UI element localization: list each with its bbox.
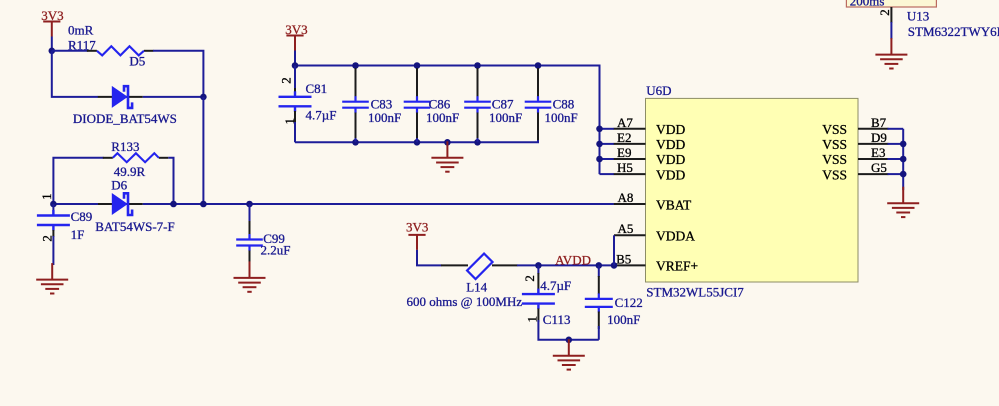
node bottom bus C86 bbox=[414, 139, 421, 146]
svg-text:STM6322TWY6F: STM6322TWY6F bbox=[908, 24, 999, 39]
wire U13 pin to ground bbox=[890, 22, 892, 39]
capacitor C81 riser top bbox=[294, 66, 296, 91]
svg-text:C122: C122 bbox=[615, 295, 643, 310]
wire main rail from C89 junction to D6 bbox=[53, 203, 98, 205]
svg-text:VSS: VSS bbox=[822, 122, 847, 137]
pin B5 VREF+ bbox=[614, 264, 646, 266]
wire A5 riser bbox=[613, 235, 615, 265]
svg-text:2.2uF: 2.2uF bbox=[261, 243, 291, 258]
pin A5 VDDA bbox=[614, 234, 646, 236]
pin C88 top bbox=[537, 68, 539, 97]
node top bus C88 bbox=[535, 62, 542, 69]
svg-text:A8: A8 bbox=[618, 190, 634, 205]
svg-text:1: 1 bbox=[525, 316, 540, 323]
inductor L14 ferrite bead bbox=[467, 254, 492, 279]
power 3V3 symbol (top-left) bbox=[43, 22, 60, 37]
node C122 tap bbox=[596, 262, 603, 269]
svg-text:E9: E9 bbox=[617, 145, 631, 160]
node bottom bus ground tap bbox=[444, 139, 451, 146]
ground C89 bbox=[36, 263, 68, 293]
pin C122 bottom bbox=[598, 312, 600, 330]
node top bus C83 bbox=[352, 62, 359, 69]
svg-text:H5: H5 bbox=[617, 160, 633, 175]
svg-text:DIODE_BAT54WS: DIODE_BAT54WS bbox=[73, 111, 177, 126]
svg-text:D5: D5 bbox=[129, 54, 145, 69]
wire 3V3 stem to R117 junction bbox=[51, 37, 53, 51]
pin C81 bottom bbox=[294, 111, 296, 123]
pin B7 VSS bbox=[858, 128, 889, 130]
pin C99 bottom bbox=[249, 251, 251, 264]
pin C87 bottom bbox=[477, 113, 479, 141]
wire C87 to bottom bus bbox=[477, 138, 479, 142]
svg-text:100nF: 100nF bbox=[368, 110, 401, 125]
pin 2 of U13 bbox=[890, 7, 892, 23]
svg-text:0mR: 0mR bbox=[68, 22, 94, 37]
wire junction to R117 bbox=[52, 50, 88, 52]
svg-text:U13: U13 bbox=[907, 8, 929, 23]
svg-text:VREF+: VREF+ bbox=[656, 259, 698, 274]
capacitor C83 bbox=[342, 96, 369, 113]
node junction C89/R133/rail bbox=[50, 201, 57, 208]
diode D5 bbox=[98, 86, 143, 108]
svg-text:VDD: VDD bbox=[656, 137, 685, 152]
node top bus C86 bbox=[414, 62, 421, 69]
op-amp U6D body bbox=[646, 98, 859, 282]
wire right vertical down to main rail bbox=[202, 97, 204, 204]
svg-text:200ms: 200ms bbox=[850, 0, 885, 8]
wire C122 to bottom rail bbox=[598, 326, 600, 340]
ground cap bank bbox=[431, 141, 463, 171]
pin C89 top bbox=[52, 210, 54, 215]
pin C81 top bbox=[294, 88, 296, 96]
wire C122 riser bbox=[598, 265, 600, 277]
svg-text:2: 2 bbox=[39, 235, 54, 242]
pin C122 top bbox=[598, 276, 600, 294]
pin E3 VSS bbox=[858, 158, 889, 160]
svg-text:4.7µF: 4.7µF bbox=[306, 108, 337, 123]
svg-text:C113: C113 bbox=[543, 312, 571, 327]
resistor R117 bbox=[87, 46, 153, 55]
svg-text:VDD: VDD bbox=[656, 167, 685, 182]
node junction R133 right on rail bbox=[170, 201, 177, 208]
node bottom bus C83 bbox=[352, 139, 359, 146]
svg-text:600 ohms @ 100MHz: 600 ohms @ 100MHz bbox=[407, 294, 523, 309]
pin A7 bbox=[614, 128, 646, 130]
capacitor C122 bbox=[585, 293, 613, 312]
capacitor C86 bbox=[404, 96, 431, 113]
svg-text:VSS: VSS bbox=[822, 167, 847, 182]
wire 3V3 stem to top bus bbox=[294, 51, 296, 66]
pin G5 VSS bbox=[858, 173, 889, 175]
node VSS E3 bbox=[900, 156, 907, 163]
pin E2 bbox=[614, 143, 646, 145]
wire VSS stub G5 bbox=[888, 173, 904, 175]
svg-text:AVDD: AVDD bbox=[555, 252, 591, 267]
svg-text:3V3: 3V3 bbox=[406, 220, 428, 235]
svg-text:C81: C81 bbox=[306, 81, 328, 96]
wire stub bus to pin H5 bbox=[600, 173, 615, 175]
power 3V3 symbol (AVDD) bbox=[408, 235, 425, 250]
svg-text:B7: B7 bbox=[871, 115, 887, 130]
svg-text:2: 2 bbox=[279, 77, 294, 84]
pin C99 top bbox=[249, 221, 251, 235]
svg-text:100nF: 100nF bbox=[426, 110, 459, 125]
pin C83 top bbox=[355, 68, 357, 97]
svg-text:G5: G5 bbox=[871, 160, 887, 175]
diode D6 bbox=[98, 193, 143, 215]
wire stub bus to pin A7 bbox=[600, 128, 615, 130]
pin C87 top bbox=[477, 68, 479, 97]
node top bus C87 bbox=[474, 62, 481, 69]
svg-text:2: 2 bbox=[522, 275, 537, 282]
wire main rail D6 to VBAT pin bbox=[143, 203, 614, 205]
wire D5 to right vertical bbox=[143, 96, 204, 98]
ground AVDD bbox=[553, 339, 585, 369]
pin D9 VSS bbox=[858, 143, 889, 145]
node VSS D9 bbox=[900, 141, 907, 148]
wire stub bus to pin E2 bbox=[600, 143, 615, 145]
wire 3V3 stem down and right bbox=[417, 250, 442, 266]
node top bus C81 bbox=[292, 62, 299, 69]
wire VSS stubs to vertical bbox=[888, 128, 904, 130]
svg-text:VDD: VDD bbox=[656, 122, 685, 137]
pin L14 left bbox=[441, 264, 468, 266]
wire C83 to bottom bus bbox=[355, 138, 357, 142]
pin C86 bottom bbox=[416, 113, 418, 141]
wire VSS stub D9 bbox=[888, 143, 904, 145]
svg-text:B5: B5 bbox=[616, 252, 631, 267]
wire stub bus to pin E9 bbox=[600, 158, 615, 160]
svg-text:A7: A7 bbox=[617, 115, 633, 130]
pin A8 VBAT bbox=[614, 203, 646, 205]
svg-text:100nF: 100nF bbox=[489, 110, 522, 125]
node junction C99 on rail bbox=[246, 201, 253, 208]
svg-text:1F: 1F bbox=[71, 227, 85, 242]
pin C113 top bbox=[537, 273, 539, 294]
wire top bus bbox=[295, 66, 600, 175]
node bus at A7 bbox=[596, 126, 603, 133]
svg-text:A5: A5 bbox=[618, 221, 634, 236]
wire R133 loop left leg bbox=[53, 158, 103, 204]
wire left vertical down to D5 row bbox=[52, 51, 98, 97]
svg-text:L14: L14 bbox=[466, 279, 487, 294]
node A5 riser tap bbox=[611, 262, 618, 269]
capacitor C89 bbox=[37, 210, 70, 231]
pin C88 bottom bbox=[537, 113, 539, 141]
pin C89 bottom bbox=[52, 230, 54, 237]
svg-text:1: 1 bbox=[39, 193, 54, 200]
capacitor C113 bbox=[522, 289, 555, 310]
note box 200ms bbox=[846, 0, 936, 7]
wire bottom bus bbox=[295, 112, 538, 142]
wire C99 riser bbox=[249, 204, 251, 222]
pin L14 right bbox=[492, 264, 518, 266]
wire C86 to bottom bus bbox=[416, 138, 418, 142]
capacitor C99 bbox=[236, 234, 263, 251]
wire C89 riser top bbox=[52, 204, 54, 211]
svg-text:100nF: 100nF bbox=[607, 312, 640, 327]
wire L14 to VREF+ pin bbox=[517, 264, 614, 266]
wire C89 to ground bbox=[52, 236, 54, 265]
wire C113 riser bbox=[537, 265, 539, 274]
wire R117 to right corner and down bbox=[153, 51, 203, 97]
capacitor C81 bbox=[279, 91, 312, 112]
pin H5 bbox=[614, 173, 646, 175]
node bus at E9 bbox=[596, 156, 603, 163]
ground C99 bbox=[234, 261, 266, 291]
svg-text:U6D: U6D bbox=[646, 83, 671, 98]
node bus at E2 bbox=[596, 141, 603, 148]
svg-text:100nF: 100nF bbox=[545, 110, 578, 125]
node junction D5/R117 right bbox=[200, 94, 207, 101]
capacitor C88 bbox=[525, 96, 552, 113]
svg-text:VSS: VSS bbox=[822, 137, 847, 152]
node AVDD ground tap bbox=[566, 337, 573, 344]
svg-text:VDD: VDD bbox=[656, 152, 685, 167]
ground VSS bbox=[887, 187, 919, 217]
ground U13 bbox=[875, 38, 907, 68]
svg-text:E3: E3 bbox=[871, 145, 885, 160]
svg-text:D9: D9 bbox=[871, 130, 887, 145]
node junction D5 branch on rail bbox=[200, 201, 207, 208]
wire VSS vertical bbox=[902, 129, 904, 190]
wire C113 to bottom rail bbox=[538, 320, 598, 340]
pin C86 top bbox=[416, 68, 418, 97]
node VSS G5 bbox=[900, 171, 907, 178]
pin C113 bottom bbox=[537, 309, 539, 323]
svg-text:VDDA: VDDA bbox=[656, 229, 695, 244]
capacitor C87 bbox=[464, 96, 491, 113]
svg-text:4.7µF: 4.7µF bbox=[540, 278, 571, 293]
node junction 3V3/R117 bbox=[49, 48, 56, 55]
svg-text:C89: C89 bbox=[71, 209, 93, 224]
pin C83 bottom bbox=[355, 113, 357, 141]
svg-text:VSS: VSS bbox=[822, 152, 847, 167]
node bottom bus C87 bbox=[474, 139, 481, 146]
wire C81 riser bottom bbox=[294, 122, 296, 142]
svg-text:BAT54WS-7-F: BAT54WS-7-F bbox=[95, 219, 174, 234]
wire R133 right leg down bbox=[168, 158, 173, 204]
resistor R133 bbox=[103, 153, 169, 162]
svg-text:VBAT: VBAT bbox=[656, 197, 692, 212]
svg-text:R133: R133 bbox=[111, 139, 139, 154]
svg-text:D6: D6 bbox=[111, 177, 127, 192]
power 3V3 symbol (cap bank) bbox=[286, 36, 303, 51]
svg-text:STM32WL55JCI7: STM32WL55JCI7 bbox=[646, 285, 744, 300]
pin E9 bbox=[614, 158, 646, 160]
svg-text:2: 2 bbox=[877, 9, 892, 16]
svg-text:R117: R117 bbox=[68, 37, 96, 52]
wire VSS stub E3 bbox=[888, 158, 904, 160]
svg-text:E2: E2 bbox=[617, 130, 631, 145]
node C113 tap bbox=[535, 262, 542, 269]
